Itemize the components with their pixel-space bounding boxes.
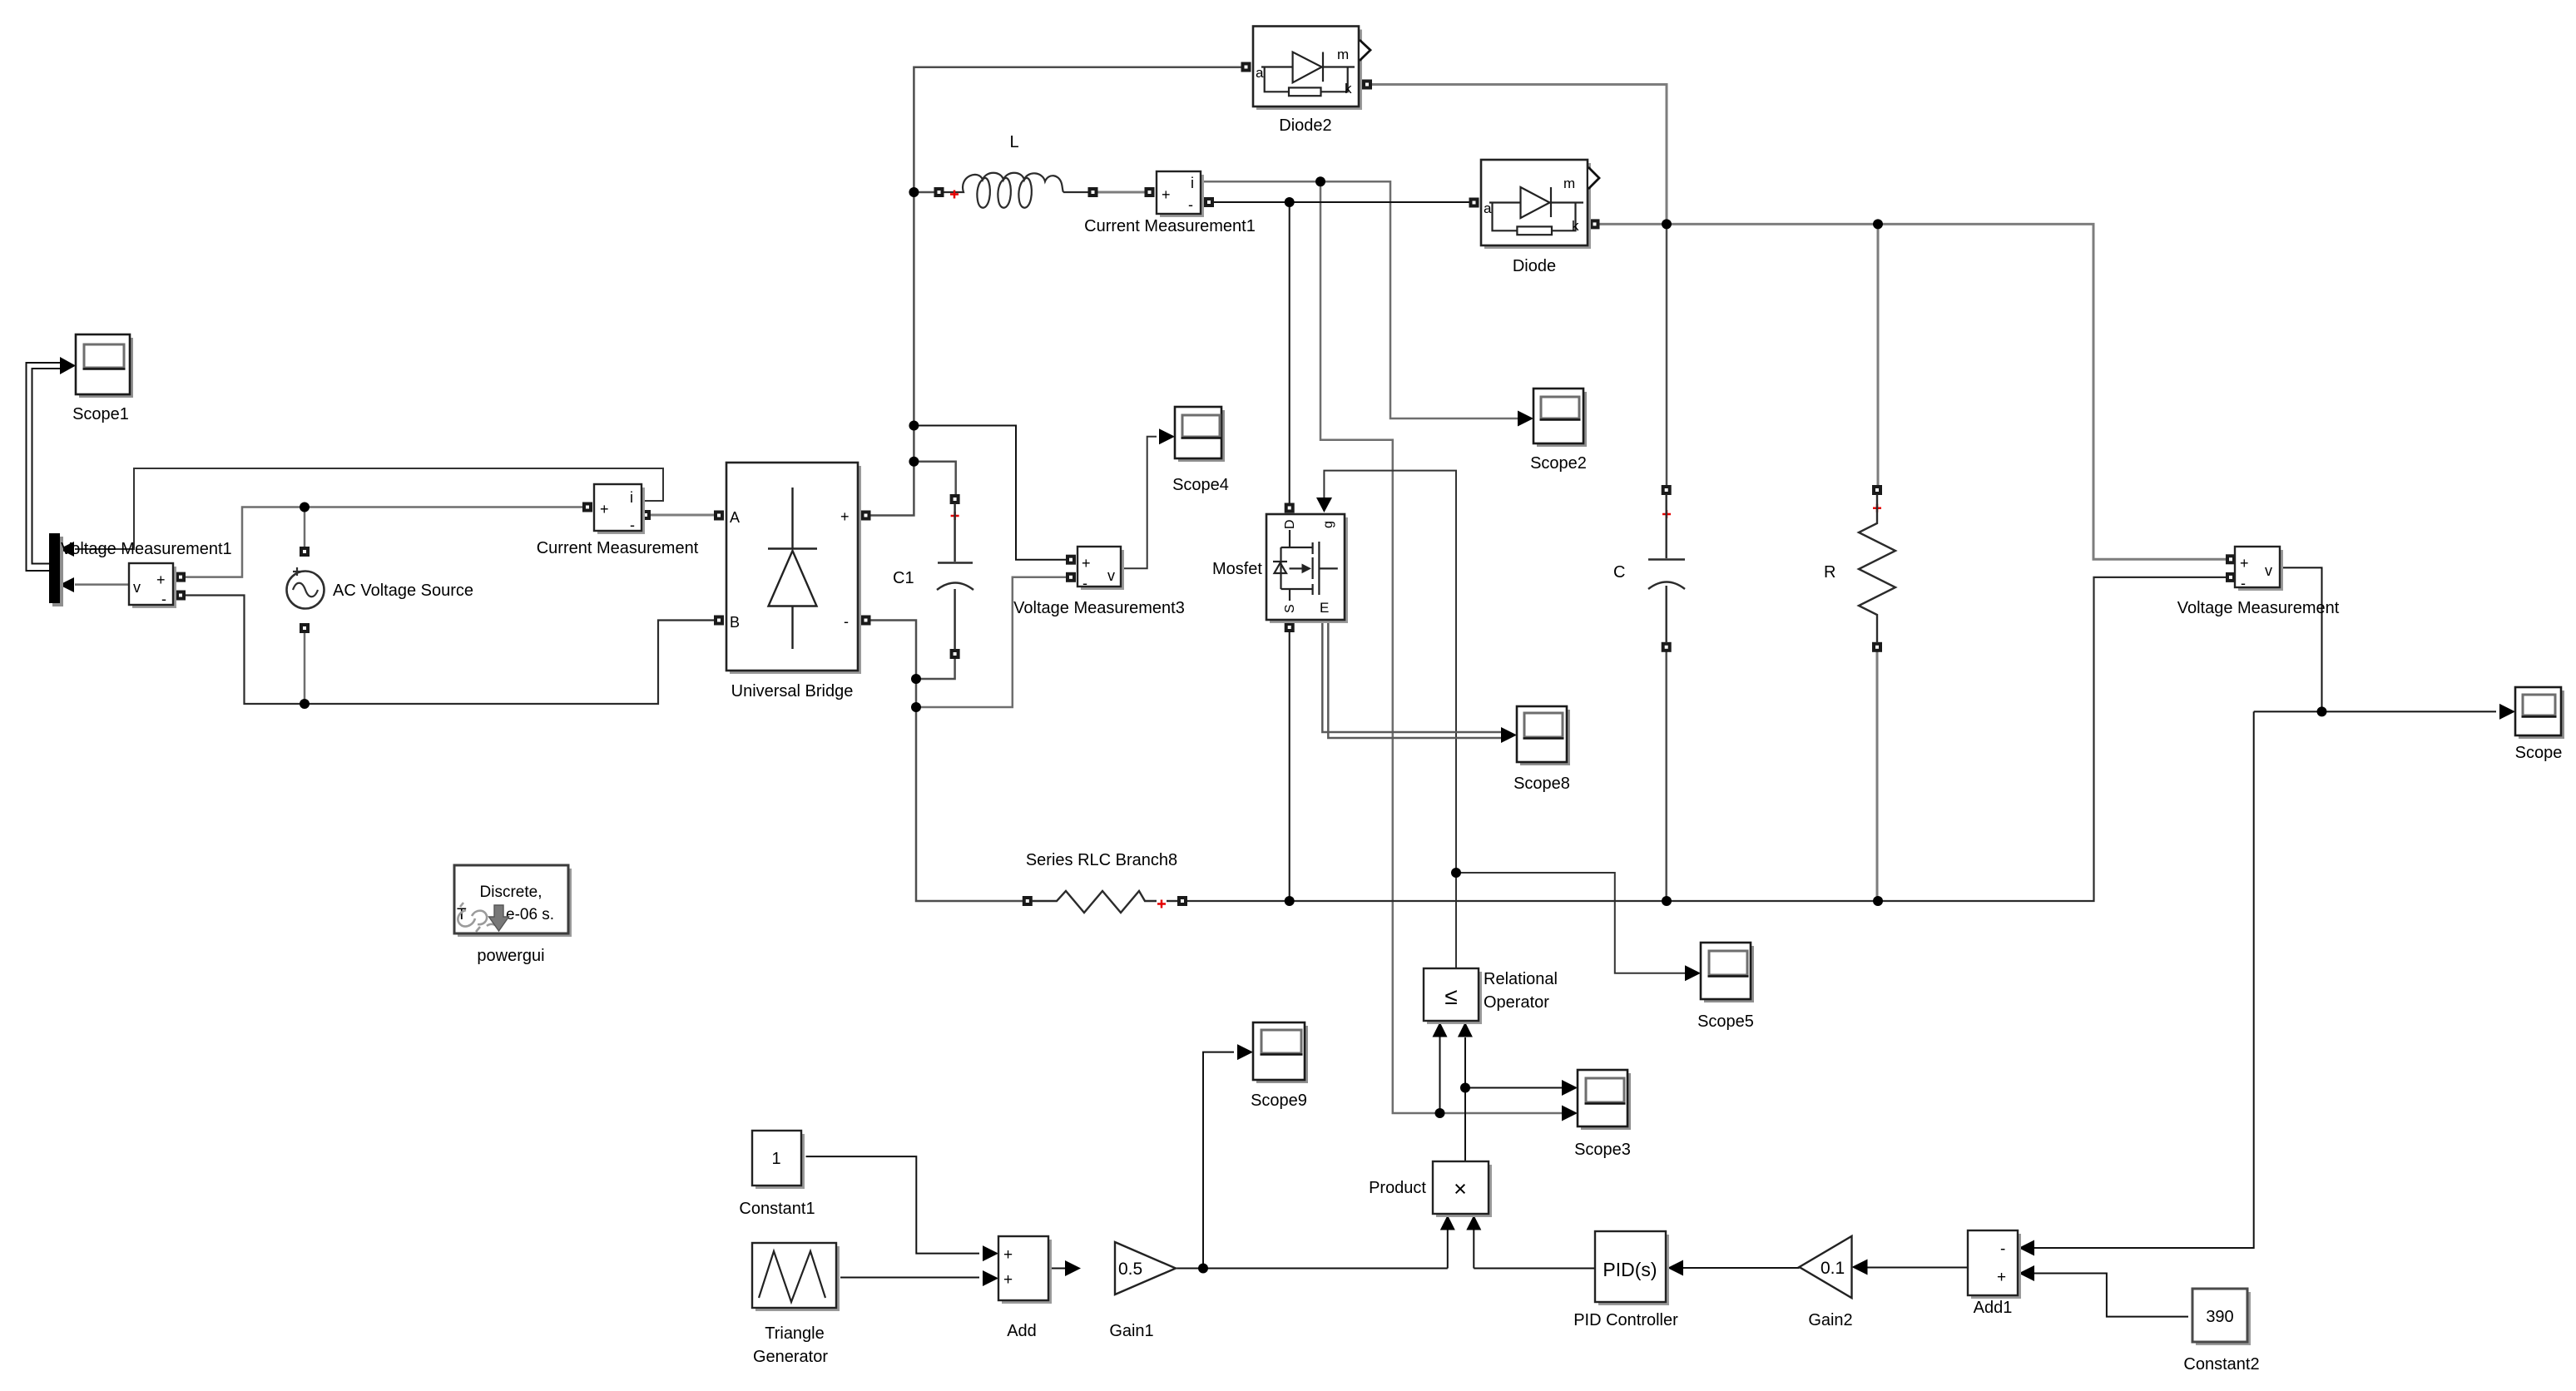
svg-text:+: + bbox=[1997, 1269, 2006, 1286]
port square Diode a bbox=[1469, 198, 1479, 208]
node: Gain1 out / Scope9 branch bbox=[1198, 1264, 1208, 1274]
port square UB A bbox=[714, 511, 724, 521]
wire: Constant1 to Add input1 bbox=[806, 1156, 980, 1254]
svg-text:Series RLC Branch8: Series RLC Branch8 bbox=[1026, 851, 1177, 869]
svg-text:+: + bbox=[156, 572, 166, 588]
svg-text:Discrete,: Discrete, bbox=[480, 884, 542, 901]
diode block Diode2 bbox=[1253, 27, 1370, 136]
svg-text:Add: Add bbox=[1007, 1322, 1037, 1340]
capacitor C1 bbox=[937, 503, 973, 650]
svg-text:PID Controller: PID Controller bbox=[1573, 1311, 1678, 1329]
wire: Voltage Measurement3 v to Scope4 bbox=[1124, 437, 1157, 568]
svg-text:k: k bbox=[1572, 218, 1579, 234]
svg-text:+: + bbox=[600, 501, 609, 517]
svg-text:-: - bbox=[844, 613, 849, 630]
wire: C1 top feed bbox=[914, 462, 955, 495]
port square UB minus bbox=[861, 616, 871, 626]
node: C top on cathode bus bbox=[1662, 219, 1672, 229]
svg-text:Add1: Add1 bbox=[1974, 1299, 2013, 1317]
svg-text:+: + bbox=[1003, 1271, 1013, 1289]
Product bbox=[1369, 1161, 1492, 1217]
svg-text:Scope1: Scope1 bbox=[72, 405, 129, 423]
red + of C1 bbox=[951, 512, 959, 520]
svg-text:Relational: Relational bbox=[1484, 970, 1558, 988]
arrow into Scope4 bbox=[1159, 428, 1175, 444]
wire: Diode2 k output to cathode bus corner bbox=[1372, 85, 1667, 225]
port square VM plus bbox=[2226, 554, 2236, 564]
wire: Product output up to RO input2 bbox=[1464, 1037, 1466, 1161]
wire: CM i loop to mux bbox=[75, 468, 663, 549]
port square VM3 plus bbox=[1066, 555, 1076, 565]
svg-text:Voltage Measurement3: Voltage Measurement3 bbox=[1013, 599, 1185, 617]
node: Mosfet D tap bbox=[1285, 197, 1295, 207]
svg-text:a: a bbox=[1484, 200, 1492, 216]
arrow into Scope8 bbox=[1501, 727, 1517, 743]
red + of L bbox=[950, 191, 959, 199]
svg-text:i: i bbox=[630, 489, 633, 506]
node: Mosfet S on rail bbox=[1285, 896, 1295, 906]
node: R top on cathode bus bbox=[1873, 219, 1883, 229]
port square Mosfet S bbox=[1285, 622, 1295, 632]
wire: Constant2 to Add1 plus bbox=[2034, 1274, 2188, 1317]
svg-text:+: + bbox=[1082, 555, 1091, 572]
mosfet icon bbox=[1273, 530, 1338, 601]
port square C top bbox=[1662, 485, 1672, 495]
wire: C top drop bbox=[1666, 224, 1668, 485]
node: C bottom on rail bbox=[1662, 896, 1672, 906]
wire: CM1 minus to Diode anode bbox=[1214, 201, 1470, 203]
port square R bottom bbox=[1872, 642, 1882, 652]
wire: Diode2 anode feed from +node (x=1098) up and right bbox=[869, 67, 1242, 516]
svg-text:Constant2: Constant2 bbox=[2183, 1355, 2259, 1374]
port square Diode2 a bbox=[1241, 62, 1251, 72]
svg-text:-: - bbox=[161, 591, 166, 607]
wire: Triangle Generator to Add input2 bbox=[840, 1277, 979, 1279]
arrow into Scope5 bbox=[1685, 965, 1701, 981]
Add1 (flipped) bbox=[1968, 1230, 2021, 1317]
Gain1 bbox=[1109, 1242, 1176, 1340]
mux (black bar) to Scope1 bbox=[49, 533, 63, 606]
arrow into Gain1 bbox=[1065, 1260, 1081, 1276]
port square UB B bbox=[714, 616, 724, 626]
port square CM1 minus bbox=[1204, 197, 1214, 207]
wire: output voltage feedback to Add1 minus bbox=[2034, 711, 2254, 1248]
svg-text:v: v bbox=[2265, 562, 2272, 579]
node: C1 tap bbox=[909, 457, 919, 467]
svg-text:g: g bbox=[1321, 521, 1335, 528]
port square VM1 minus bbox=[176, 591, 186, 601]
port square Mosfet D bbox=[1285, 503, 1295, 513]
port square AC top bbox=[300, 547, 310, 557]
port square AC bottom bbox=[300, 623, 310, 633]
Constant2 bbox=[2183, 1289, 2259, 1374]
wire: Scope5 feed bbox=[1456, 873, 1686, 973]
node: AC top bbox=[300, 502, 310, 512]
wire: VM3 minus feed bbox=[916, 577, 1066, 707]
port square C1 bottom bbox=[950, 649, 960, 659]
node: VM output branch bbox=[2317, 706, 2327, 716]
wire: Gain2 to PID bbox=[1683, 1267, 1800, 1269]
resistor R bbox=[1859, 494, 1895, 643]
diode block Diode bbox=[1481, 160, 1599, 275]
svg-text:Gain2: Gain2 bbox=[1808, 1311, 1852, 1329]
arrows into Scope3 bbox=[1562, 1080, 1578, 1096]
port square CM1 plus bbox=[1145, 187, 1155, 197]
scope Scope8 bbox=[1513, 706, 1570, 793]
port square CM plus bbox=[582, 502, 592, 512]
PID Controller bbox=[1573, 1231, 1678, 1329]
svg-text:Operator: Operator bbox=[1484, 993, 1549, 1012]
Relational Operator bbox=[1424, 968, 1558, 1024]
svg-text:Current Measurement: Current Measurement bbox=[537, 539, 699, 557]
arrow into Scope (right) bbox=[2499, 704, 2515, 720]
wire: Product input risers bbox=[1447, 1230, 1449, 1269]
svg-text:powergui: powergui bbox=[477, 947, 544, 965]
svg-text:-: - bbox=[1188, 196, 1193, 213]
svg-text:Current Measurement1: Current Measurement1 bbox=[1084, 217, 1256, 235]
wire: Mosfet S drop bbox=[1289, 632, 1290, 902]
wire: PID output line to product riser bbox=[1474, 1268, 1595, 1270]
thyristor icon inside bridge bbox=[791, 488, 793, 548]
svg-text:Diode: Diode bbox=[1513, 257, 1556, 275]
inductor L coil bbox=[944, 173, 1063, 192]
svg-text:E: E bbox=[1320, 600, 1329, 616]
Universal Bridge bbox=[726, 463, 861, 700]
svg-text:AC Voltage Source: AC Voltage Source bbox=[333, 582, 473, 600]
wire: Gain1 output line bbox=[1176, 1268, 1448, 1270]
port square UB plus bbox=[861, 511, 871, 521]
wire: drop to Mosfet D bbox=[1289, 202, 1290, 503]
svg-text:0.5: 0.5 bbox=[1118, 1260, 1142, 1279]
arrow into mux top input bbox=[59, 542, 74, 557]
svg-text:+: + bbox=[1003, 1246, 1013, 1264]
wire: RO output up to Mosfet gate bbox=[1324, 471, 1456, 968]
node: VM3+ tap bbox=[909, 421, 919, 431]
svg-text:-: - bbox=[2241, 575, 2246, 592]
svg-text:B: B bbox=[730, 614, 740, 631]
Gain2 (flipped) bbox=[1800, 1236, 1853, 1329]
wire: i branch down to comparator / Scope3 lower input bbox=[1320, 181, 1563, 1113]
red + of Series RLC Branch8 bbox=[1157, 900, 1166, 908]
Voltage Measurement1 block bbox=[61, 540, 232, 608]
wire: R top drop bbox=[1877, 224, 1880, 485]
arrow into Scope9 bbox=[1237, 1044, 1253, 1060]
svg-text:+: + bbox=[2240, 555, 2249, 572]
scope Scope4 bbox=[1172, 407, 1229, 494]
wire: L to Current Measurement1 bbox=[1097, 191, 1145, 194]
wire: cathode bus y=269 from Diode k to VM+ bbox=[1599, 224, 2227, 559]
svg-text:S: S bbox=[1283, 604, 1297, 613]
svg-text:-: - bbox=[1082, 575, 1087, 592]
arrow into Scope1 bbox=[60, 357, 76, 374]
node: product-out / Scope3 branch bbox=[1460, 1083, 1470, 1093]
node: AC bottom bbox=[300, 699, 310, 709]
scope Scope5 bbox=[1697, 943, 1754, 1031]
node: RO in1 branch bbox=[1435, 1108, 1445, 1118]
wire: AC top net to bridge bbox=[185, 507, 583, 577]
port square Diode k bbox=[1590, 219, 1600, 229]
port square VM1 plus bbox=[176, 572, 186, 582]
port square L left bbox=[934, 187, 944, 197]
wire: Scope9 riser bbox=[1203, 1052, 1234, 1269]
red + of C bbox=[1662, 510, 1671, 518]
svg-text:+: + bbox=[1162, 186, 1171, 203]
arrow into mux bottom input bbox=[59, 577, 74, 592]
node: C1 minus bbox=[911, 674, 921, 684]
svg-text:L: L bbox=[1009, 133, 1018, 151]
wire: R bottom drop bbox=[1876, 651, 1879, 901]
Series RLC Branch8 resistor bbox=[1032, 891, 1177, 913]
svg-text:C: C bbox=[1613, 563, 1625, 582]
svg-text:1: 1 bbox=[771, 1150, 780, 1168]
wire: inductor L branch left stub bbox=[919, 191, 934, 194]
node: Scope5 branch bbox=[1451, 868, 1461, 878]
svg-text:i: i bbox=[1191, 175, 1194, 191]
Triangle Generator bbox=[752, 1243, 840, 1366]
red + of R bbox=[1873, 504, 1881, 512]
svg-text:≤: ≤ bbox=[1444, 983, 1457, 1009]
svg-text:-: - bbox=[630, 517, 635, 533]
wire: UB minus rail down-left column bbox=[869, 621, 1023, 902]
wire: Mosfet E measurement double line to Scope8 bbox=[1322, 621, 1503, 732]
port square R top bbox=[1872, 485, 1882, 495]
wire: bottom rail from RLC to VM minus bbox=[1186, 577, 2226, 901]
svg-text:v: v bbox=[133, 579, 141, 596]
wire: C bottom drop bbox=[1665, 651, 1667, 901]
port square VM3 minus bbox=[1066, 572, 1076, 582]
node: L tap on x=1098 bbox=[909, 187, 919, 197]
port square VM minus bbox=[2226, 572, 2236, 582]
node: i signal branch bbox=[1315, 176, 1325, 186]
node: VM3 minus tap bbox=[911, 702, 921, 712]
svg-text:×: × bbox=[1454, 1176, 1467, 1201]
arrows into Add1 (pointing left) bbox=[2019, 1240, 2034, 1256]
broken link + arrow icon bbox=[458, 903, 498, 932]
svg-text:k: k bbox=[1345, 81, 1352, 97]
svg-text:-: - bbox=[2000, 1240, 2005, 1258]
arrows into Relational Operator (up) bbox=[1433, 1022, 1448, 1037]
svg-text:Product: Product bbox=[1369, 1179, 1426, 1197]
node: R bottom on rail bbox=[1873, 896, 1883, 906]
svg-text:Scope2: Scope2 bbox=[1530, 454, 1587, 473]
Add bbox=[998, 1236, 1052, 1340]
svg-text:Gain1: Gain1 bbox=[1109, 1322, 1153, 1340]
arrows into Product (up) bbox=[1440, 1215, 1455, 1230]
svg-text:D: D bbox=[1283, 519, 1297, 529]
port square RLC right bbox=[1177, 896, 1187, 906]
wire: AC bottom net to bridge B bbox=[185, 596, 715, 705]
svg-text:Universal Bridge: Universal Bridge bbox=[731, 682, 854, 700]
wire: C1 bottom to minus node bbox=[920, 659, 955, 680]
wire: Add output to Gain1 bbox=[1048, 1268, 1066, 1270]
svg-text:m: m bbox=[1337, 47, 1349, 62]
svg-text:Scope3: Scope3 bbox=[1574, 1141, 1631, 1159]
svg-text:v: v bbox=[1107, 567, 1115, 584]
port square CM minus bbox=[641, 510, 651, 520]
wire: Add1 to Gain2 bbox=[1866, 1267, 1968, 1269]
arrow into Gain2 (pointing left) bbox=[1852, 1260, 1868, 1275]
wire: VM1 v output to mux bbox=[75, 583, 129, 586]
Constant1 bbox=[739, 1131, 815, 1218]
svg-text:Triangle: Triangle bbox=[765, 1324, 825, 1343]
svg-text:A: A bbox=[730, 509, 740, 526]
wire: branch to Scope3 input1 bbox=[1465, 1087, 1563, 1089]
scope Scope bbox=[2515, 687, 2564, 762]
svg-text:a: a bbox=[1256, 65, 1264, 81]
svg-text:Scope9: Scope9 bbox=[1251, 1092, 1307, 1110]
wire: RO input1 riser bbox=[1439, 1037, 1441, 1113]
capacitor C bbox=[1648, 494, 1685, 643]
svg-text:Generator: Generator bbox=[753, 1348, 828, 1366]
svg-text:PID(s): PID(s) bbox=[1603, 1259, 1657, 1280]
port square L right bbox=[1088, 187, 1098, 197]
wire: CM1 i output to Scope2 (gray) bbox=[1201, 181, 1518, 418]
port square C1 top bbox=[950, 494, 960, 504]
scope Scope9 bbox=[1251, 1022, 1308, 1110]
svg-text:Scope8: Scope8 bbox=[1513, 775, 1570, 793]
wire: CM minus to bridge A bbox=[650, 514, 715, 517]
AC Voltage Source bbox=[287, 567, 474, 609]
svg-text:Mosfet: Mosfet bbox=[1212, 560, 1262, 578]
Voltage Measurement3 block bbox=[1013, 547, 1185, 617]
svg-text:Voltage Measurement1: Voltage Measurement1 bbox=[61, 540, 232, 558]
svg-text:Scope: Scope bbox=[2515, 744, 2563, 762]
svg-text:C1: C1 bbox=[893, 569, 914, 587]
wire: VM v output to Scope and branch bbox=[2282, 567, 2322, 711]
scope Scope3 bbox=[1574, 1070, 1631, 1159]
svg-text:R: R bbox=[1824, 563, 1835, 582]
svg-text:+: + bbox=[840, 508, 850, 525]
svg-text:0.1: 0.1 bbox=[1821, 1259, 1845, 1278]
svg-text:Diode2: Diode2 bbox=[1279, 116, 1331, 135]
Current Measurement1 block bbox=[1084, 171, 1256, 235]
svg-text:m: m bbox=[1563, 176, 1575, 191]
arrow into Mosfet gate (down) bbox=[1316, 497, 1332, 512]
svg-text:Scope4: Scope4 bbox=[1172, 476, 1229, 494]
wire: VM3 plus feed from node x=1098 bbox=[914, 426, 1066, 560]
svg-text:e-06 s.: e-06 s. bbox=[506, 906, 554, 923]
scope Scope2 bbox=[1530, 389, 1587, 473]
arrow into PID (pointing left) bbox=[1667, 1260, 1683, 1276]
arrows into Add bbox=[983, 1245, 998, 1261]
scope Scope1 bbox=[72, 334, 133, 423]
svg-text:390: 390 bbox=[2206, 1308, 2233, 1326]
port square RLC left bbox=[1023, 896, 1033, 906]
port square C bottom bbox=[1662, 642, 1672, 652]
svg-text:Scope5: Scope5 bbox=[1697, 1012, 1754, 1031]
svg-text:Voltage Measurement: Voltage Measurement bbox=[2177, 599, 2340, 617]
wire: mux vector double line to Scope1 bbox=[32, 369, 62, 564]
Voltage Measurement block (right) bbox=[2177, 547, 2340, 617]
Current Measurement block bbox=[537, 484, 699, 557]
arrow into Scope2 bbox=[1518, 411, 1533, 427]
svg-text:Constant1: Constant1 bbox=[739, 1200, 815, 1218]
port square Diode2 k bbox=[1362, 80, 1372, 90]
